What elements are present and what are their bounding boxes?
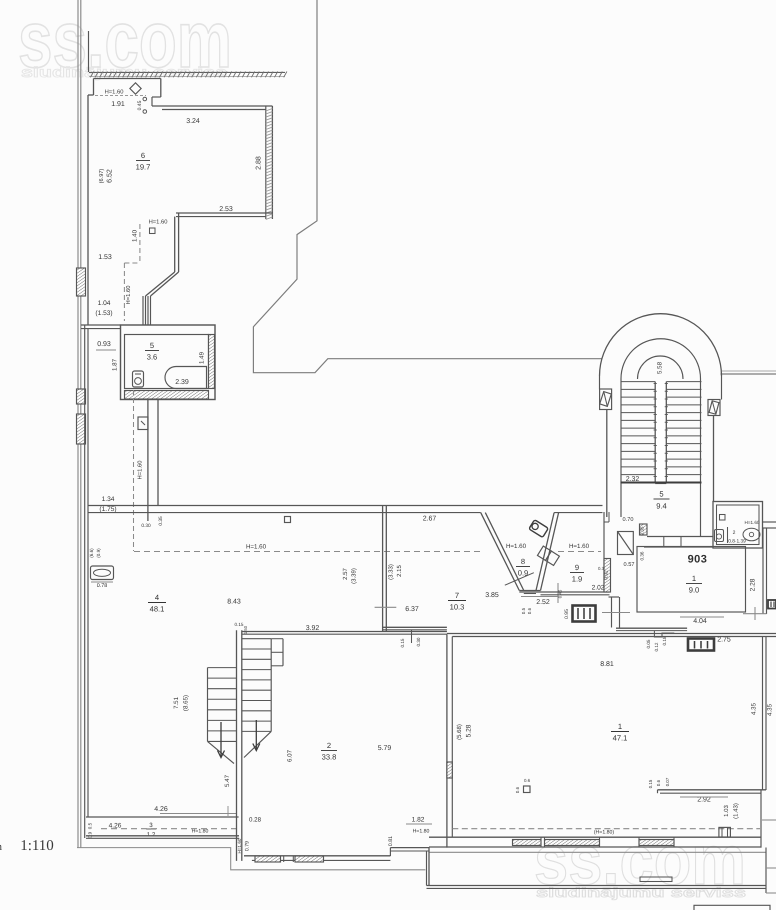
duct box on passage [138, 417, 148, 430]
window dividers room1 [540, 837, 542, 847]
svg-text:H=1.60: H=1.60 [149, 219, 168, 226]
svg-text:3.92: 3.92 [306, 625, 320, 632]
room1 right wall [762, 637, 764, 791]
svg-text:1.49: 1.49 [199, 351, 206, 364]
bathroom square symbol [720, 515, 726, 521]
svg-text:4.35: 4.35 [767, 703, 774, 716]
svg-text:(3.33): (3.33) [388, 564, 395, 580]
svg-text:0.30: 0.30 [416, 637, 421, 646]
svg-text:(1.53): (1.53) [95, 310, 112, 317]
svg-text:1.91: 1.91 [111, 101, 125, 108]
svg-text:1: 1 [692, 574, 696, 583]
room 6 notch 0.45 [160, 79, 162, 98]
903 bottom wall [616, 627, 687, 629]
tower right wall [721, 376, 723, 400]
svg-text:1.9: 1.9 [572, 575, 583, 584]
svg-text:0.05: 0.05 [646, 639, 651, 648]
svg-text:0.12: 0.12 [654, 642, 659, 651]
svg-text:H=1.80: H=1.80 [192, 829, 209, 835]
protrusion bottom wall [427, 885, 767, 887]
svg-text:8.43: 8.43 [227, 599, 241, 606]
bathroom 903 outer [713, 502, 763, 549]
svg-text:2.57: 2.57 [342, 568, 349, 580]
svg-text:9: 9 [575, 563, 579, 572]
room1 window to room2 [447, 762, 452, 778]
svg-text:(3.39): (3.39) [351, 568, 358, 584]
svg-text:0.9: 0.9 [88, 831, 93, 838]
wall left to room5 [81, 324, 121, 326]
site boundary bottom left [77, 848, 425, 870]
svg-text:7: 7 [455, 591, 459, 600]
svg-text:2.52: 2.52 [536, 599, 550, 606]
svg-text:2.67: 2.67 [423, 516, 437, 523]
svg-text:2.28: 2.28 [750, 578, 757, 591]
room 6 top wall right section [152, 105, 272, 107]
svg-text:2: 2 [327, 741, 331, 750]
switch square on wall [285, 517, 291, 523]
svg-text:0.6: 0.6 [515, 786, 520, 793]
tower door slanted [618, 532, 634, 555]
svg-text:10.3: 10.3 [450, 603, 465, 612]
tick right wall [762, 819, 776, 821]
room2 bottom wall [244, 855, 390, 857]
funnel bottom [519, 590, 540, 592]
bathroom sink [743, 528, 760, 541]
svg-text:0.78: 0.78 [97, 583, 108, 589]
small step marks 903 bottom [654, 631, 674, 637]
svg-text:2.75: 2.75 [717, 637, 731, 644]
tick below 903 [743, 613, 767, 615]
corridor slot walls [142, 296, 144, 325]
svg-text:4: 4 [155, 593, 159, 602]
room 5 right wall hatch [209, 335, 215, 389]
bathroom divider [727, 527, 729, 543]
protrusion walls [428, 847, 430, 886]
svg-text:8.81: 8.81 [600, 661, 614, 668]
protrusion right edge [765, 848, 767, 894]
vent diamond room6 [130, 83, 141, 94]
passage walls below room5 [147, 400, 149, 522]
svg-text:5.28: 5.28 [466, 724, 473, 737]
stairs right flight taper [244, 731, 271, 757]
svg-text:(5.68): (5.68) [456, 724, 463, 740]
svg-text:H=1.60: H=1.60 [237, 838, 242, 853]
radiator right edge [768, 600, 776, 609]
stairs left flight arrow [220, 722, 222, 757]
svg-text:(8.65): (8.65) [183, 695, 190, 711]
svg-text:sludinājumu serviss: sludinājumu serviss [536, 885, 746, 900]
svg-text:0.35: 0.35 [158, 516, 164, 526]
tower outer arch [600, 314, 722, 376]
stair flight bottom [621, 481, 702, 483]
svg-text:H=1.60: H=1.60 [246, 544, 267, 551]
dashed H160 room4-7 [134, 551, 480, 553]
stairwell inner arch [638, 356, 684, 379]
hatch strip tower [640, 524, 648, 535]
funnel left wall [481, 513, 520, 591]
svg-text:H=1.60: H=1.60 [569, 543, 590, 550]
svg-text:1: 1 [618, 722, 622, 731]
svg-text:H=1.80: H=1.80 [413, 829, 430, 835]
svg-text:0.07: 0.07 [665, 777, 670, 786]
903 room box [637, 547, 746, 613]
svg-text:6.37: 6.37 [405, 606, 419, 613]
svg-text:1.34: 1.34 [102, 496, 115, 503]
stairs left flight treads [208, 667, 237, 669]
room 6 bottom wall [176, 212, 272, 214]
wall below rooms 8-9 [519, 591, 609, 593]
stove 903 [688, 639, 714, 651]
building outline right of tower [721, 373, 776, 375]
room1 bottom wall [429, 836, 762, 838]
svg-text:0.6: 0.6 [524, 778, 531, 783]
dashed H160 boundary mid [133, 390, 135, 551]
niche small bottom right [640, 877, 672, 882]
column box on dashed [719, 827, 731, 837]
svg-text:1.40: 1.40 [132, 229, 139, 242]
svg-text:m: m [0, 841, 2, 853]
svg-text:9.4: 9.4 [656, 502, 667, 511]
window band room9-903 [604, 559, 611, 593]
svg-text:4.04: 4.04 [693, 618, 707, 625]
svg-text:1.87: 1.87 [112, 358, 119, 371]
building outline upper right [253, 0, 602, 373]
svg-text:33.8: 33.8 [322, 753, 337, 762]
room 5 outer box [121, 325, 216, 400]
tick niche [602, 612, 630, 614]
svg-text:0.18: 0.18 [662, 636, 667, 645]
protrusion top line [429, 851, 766, 853]
room 6 walls [94, 78, 161, 80]
stairs right flight arrow [255, 720, 257, 750]
tower inner left wall [620, 379, 622, 518]
svg-text:H=1.60: H=1.60 [745, 520, 760, 525]
svg-text:1:110: 1:110 [20, 838, 54, 854]
balcony dashed line [101, 828, 238, 830]
svg-text:5: 5 [150, 341, 154, 350]
room2 right bottom step [389, 848, 391, 856]
tilted step rects [537, 546, 559, 565]
stair treads tower [621, 381, 702, 383]
svg-text:0.5: 0.5 [88, 822, 93, 829]
room4 bottom inner wall [86, 816, 239, 818]
step 0.15 0.30 marks [411, 630, 413, 643]
column square room1 [524, 786, 531, 793]
svg-text:7.51: 7.51 [173, 696, 180, 709]
svg-text:0.35: 0.35 [640, 526, 645, 535]
svg-text:0.5: 0.5 [521, 607, 526, 614]
radiator room4 left [91, 566, 114, 580]
room1 bottom windows [513, 840, 542, 846]
tower inner arch [621, 339, 701, 379]
svg-text:2.39: 2.39 [175, 379, 189, 386]
bathtub room5 [165, 367, 207, 389]
svg-text:2: 2 [733, 530, 736, 536]
svg-text:5.47: 5.47 [224, 774, 231, 787]
svg-text:0.57: 0.57 [624, 562, 635, 568]
stair stringer white [655, 381, 666, 483]
room1 dashed H180 [452, 828, 760, 830]
svg-text:(6.97): (6.97) [98, 169, 105, 184]
svg-text:3: 3 [149, 822, 153, 829]
room1 left wall [446, 634, 448, 847]
tower left wall [599, 376, 601, 390]
svg-text:4.35: 4.35 [751, 702, 758, 715]
room 5 bottom wall hatch [125, 391, 209, 400]
svg-text:0.81: 0.81 [388, 836, 394, 846]
svg-text:4.26: 4.26 [154, 806, 168, 813]
svg-text:0.79: 0.79 [245, 841, 251, 851]
toilet room5 [133, 371, 144, 387]
svg-text:1.03: 1.03 [723, 805, 730, 817]
wall right of bathroom [763, 521, 776, 523]
tilted fixture with circle [529, 520, 548, 538]
room 6 left wall upper stub [88, 31, 90, 72]
pointer line room8 [505, 573, 534, 586]
svg-text:0.30: 0.30 [141, 523, 151, 529]
svg-text:2.92: 2.92 [697, 797, 711, 804]
top hatched wall [89, 71, 285, 73]
svg-text:2.88: 2.88 [256, 156, 263, 170]
room1 top wall [447, 633, 776, 635]
stairs central wall [236, 630, 238, 861]
room7 bottom wall [383, 626, 447, 628]
room2 windows [255, 856, 281, 862]
svg-text:0.93: 0.93 [97, 341, 111, 348]
svg-text:19.7: 19.7 [136, 163, 151, 172]
bottom small box [694, 905, 770, 910]
stair stringer [654, 382, 656, 484]
svg-text:0.92: 0.92 [603, 570, 609, 580]
window block left wall upper [77, 268, 86, 296]
svg-text:48.1: 48.1 [150, 605, 165, 614]
svg-text:6: 6 [141, 151, 145, 160]
stove small [573, 606, 596, 622]
room2 window dividers [283, 856, 285, 862]
svg-text:8: 8 [521, 557, 525, 566]
svg-text:1.82: 1.82 [412, 817, 425, 824]
svg-text:6.52: 6.52 [107, 169, 114, 183]
tick room4-7 wall [375, 606, 397, 608]
svg-text:5.79: 5.79 [378, 745, 392, 752]
svg-text:9.0: 9.0 [689, 586, 700, 595]
svg-text:0.28: 0.28 [249, 817, 262, 824]
svg-text:0.95: 0.95 [564, 609, 570, 619]
right wall below bathroom [762, 528, 764, 614]
svg-text:(1.75): (1.75) [99, 506, 116, 513]
wall room9 right [603, 512, 605, 592]
svg-text:6.07: 6.07 [287, 749, 294, 762]
svg-text:0.3: 0.3 [598, 566, 605, 571]
room4 bottom outer wall [86, 835, 239, 837]
tower right buttress [708, 400, 720, 416]
svg-text:(H=1.80): (H=1.80) [594, 830, 615, 836]
step wall room1 right [658, 789, 767, 791]
svg-text:2.02: 2.02 [592, 585, 605, 592]
wall room4-room7 [382, 506, 384, 632]
svg-text:903: 903 [688, 554, 708, 566]
room 6 right wall hatched 2.88 [265, 106, 267, 219]
funnel right wall [541, 513, 559, 591]
svg-text:2.15: 2.15 [396, 565, 403, 577]
room2 top wall [242, 631, 447, 633]
svg-text:3.6: 3.6 [147, 353, 158, 362]
svg-text:0.6: 0.6 [656, 779, 661, 786]
tower left buttress [600, 389, 612, 410]
svg-text:H=1.60: H=1.60 [137, 461, 144, 480]
svg-text:H=1.60: H=1.60 [125, 286, 132, 305]
svg-text:0.45: 0.45 [137, 100, 143, 110]
dim tick room9 bottom [557, 583, 559, 603]
window block left wall mid [77, 389, 86, 404]
mid horizontal wall top face [88, 505, 603, 507]
svg-text:47.1: 47.1 [613, 734, 628, 743]
corridor diagonal walls [146, 272, 175, 296]
dashed H160 boundary room6 [139, 224, 141, 263]
window block left wall lower [77, 414, 86, 444]
svg-text:0.15: 0.15 [648, 779, 653, 788]
svg-text:0.8·1.39: 0.8·1.39 [728, 539, 746, 545]
wall below room6 [174, 217, 176, 272]
niche walls [609, 596, 620, 598]
stairs left flight taper [208, 741, 235, 763]
svg-text:(1.43): (1.43) [733, 803, 740, 819]
svg-text:1.2: 1.2 [147, 832, 156, 839]
svg-text:1.53: 1.53 [98, 254, 112, 261]
tower inner right wall [700, 379, 702, 537]
svg-text:5: 5 [659, 490, 663, 499]
svg-text:H=1.60: H=1.60 [105, 89, 124, 96]
svg-text:(0.9): (0.9) [96, 548, 101, 558]
mid horizontal wall bottom face [88, 512, 481, 514]
svg-text:H=1.60: H=1.60 [506, 543, 527, 550]
left site boundary double line [77, 0, 79, 848]
svg-text:2.53: 2.53 [219, 206, 233, 213]
svg-text:1.04: 1.04 [98, 300, 111, 307]
svg-text:3.85: 3.85 [485, 592, 499, 599]
left wall of rooms [84, 325, 86, 838]
stairs right flight treads [242, 638, 271, 640]
svg-text:3.24: 3.24 [186, 118, 200, 125]
room 5 inner box [125, 335, 209, 389]
svg-text:0.36: 0.36 [640, 551, 645, 560]
tower bottom wall [647, 536, 714, 538]
bathroom toilet [715, 530, 724, 542]
svg-text:0.45: 0.45 [558, 589, 563, 598]
svg-text:0.15: 0.15 [400, 638, 405, 647]
svg-text:1.50: 1.50 [243, 625, 248, 634]
bathroom 903 inner [717, 505, 760, 545]
svg-text:5.58: 5.58 [657, 361, 664, 374]
svg-text:0.6: 0.6 [527, 607, 532, 614]
svg-text:0.70: 0.70 [623, 517, 634, 523]
svg-text:2.32: 2.32 [626, 476, 640, 483]
svg-text:(6.6): (6.6) [89, 548, 94, 558]
